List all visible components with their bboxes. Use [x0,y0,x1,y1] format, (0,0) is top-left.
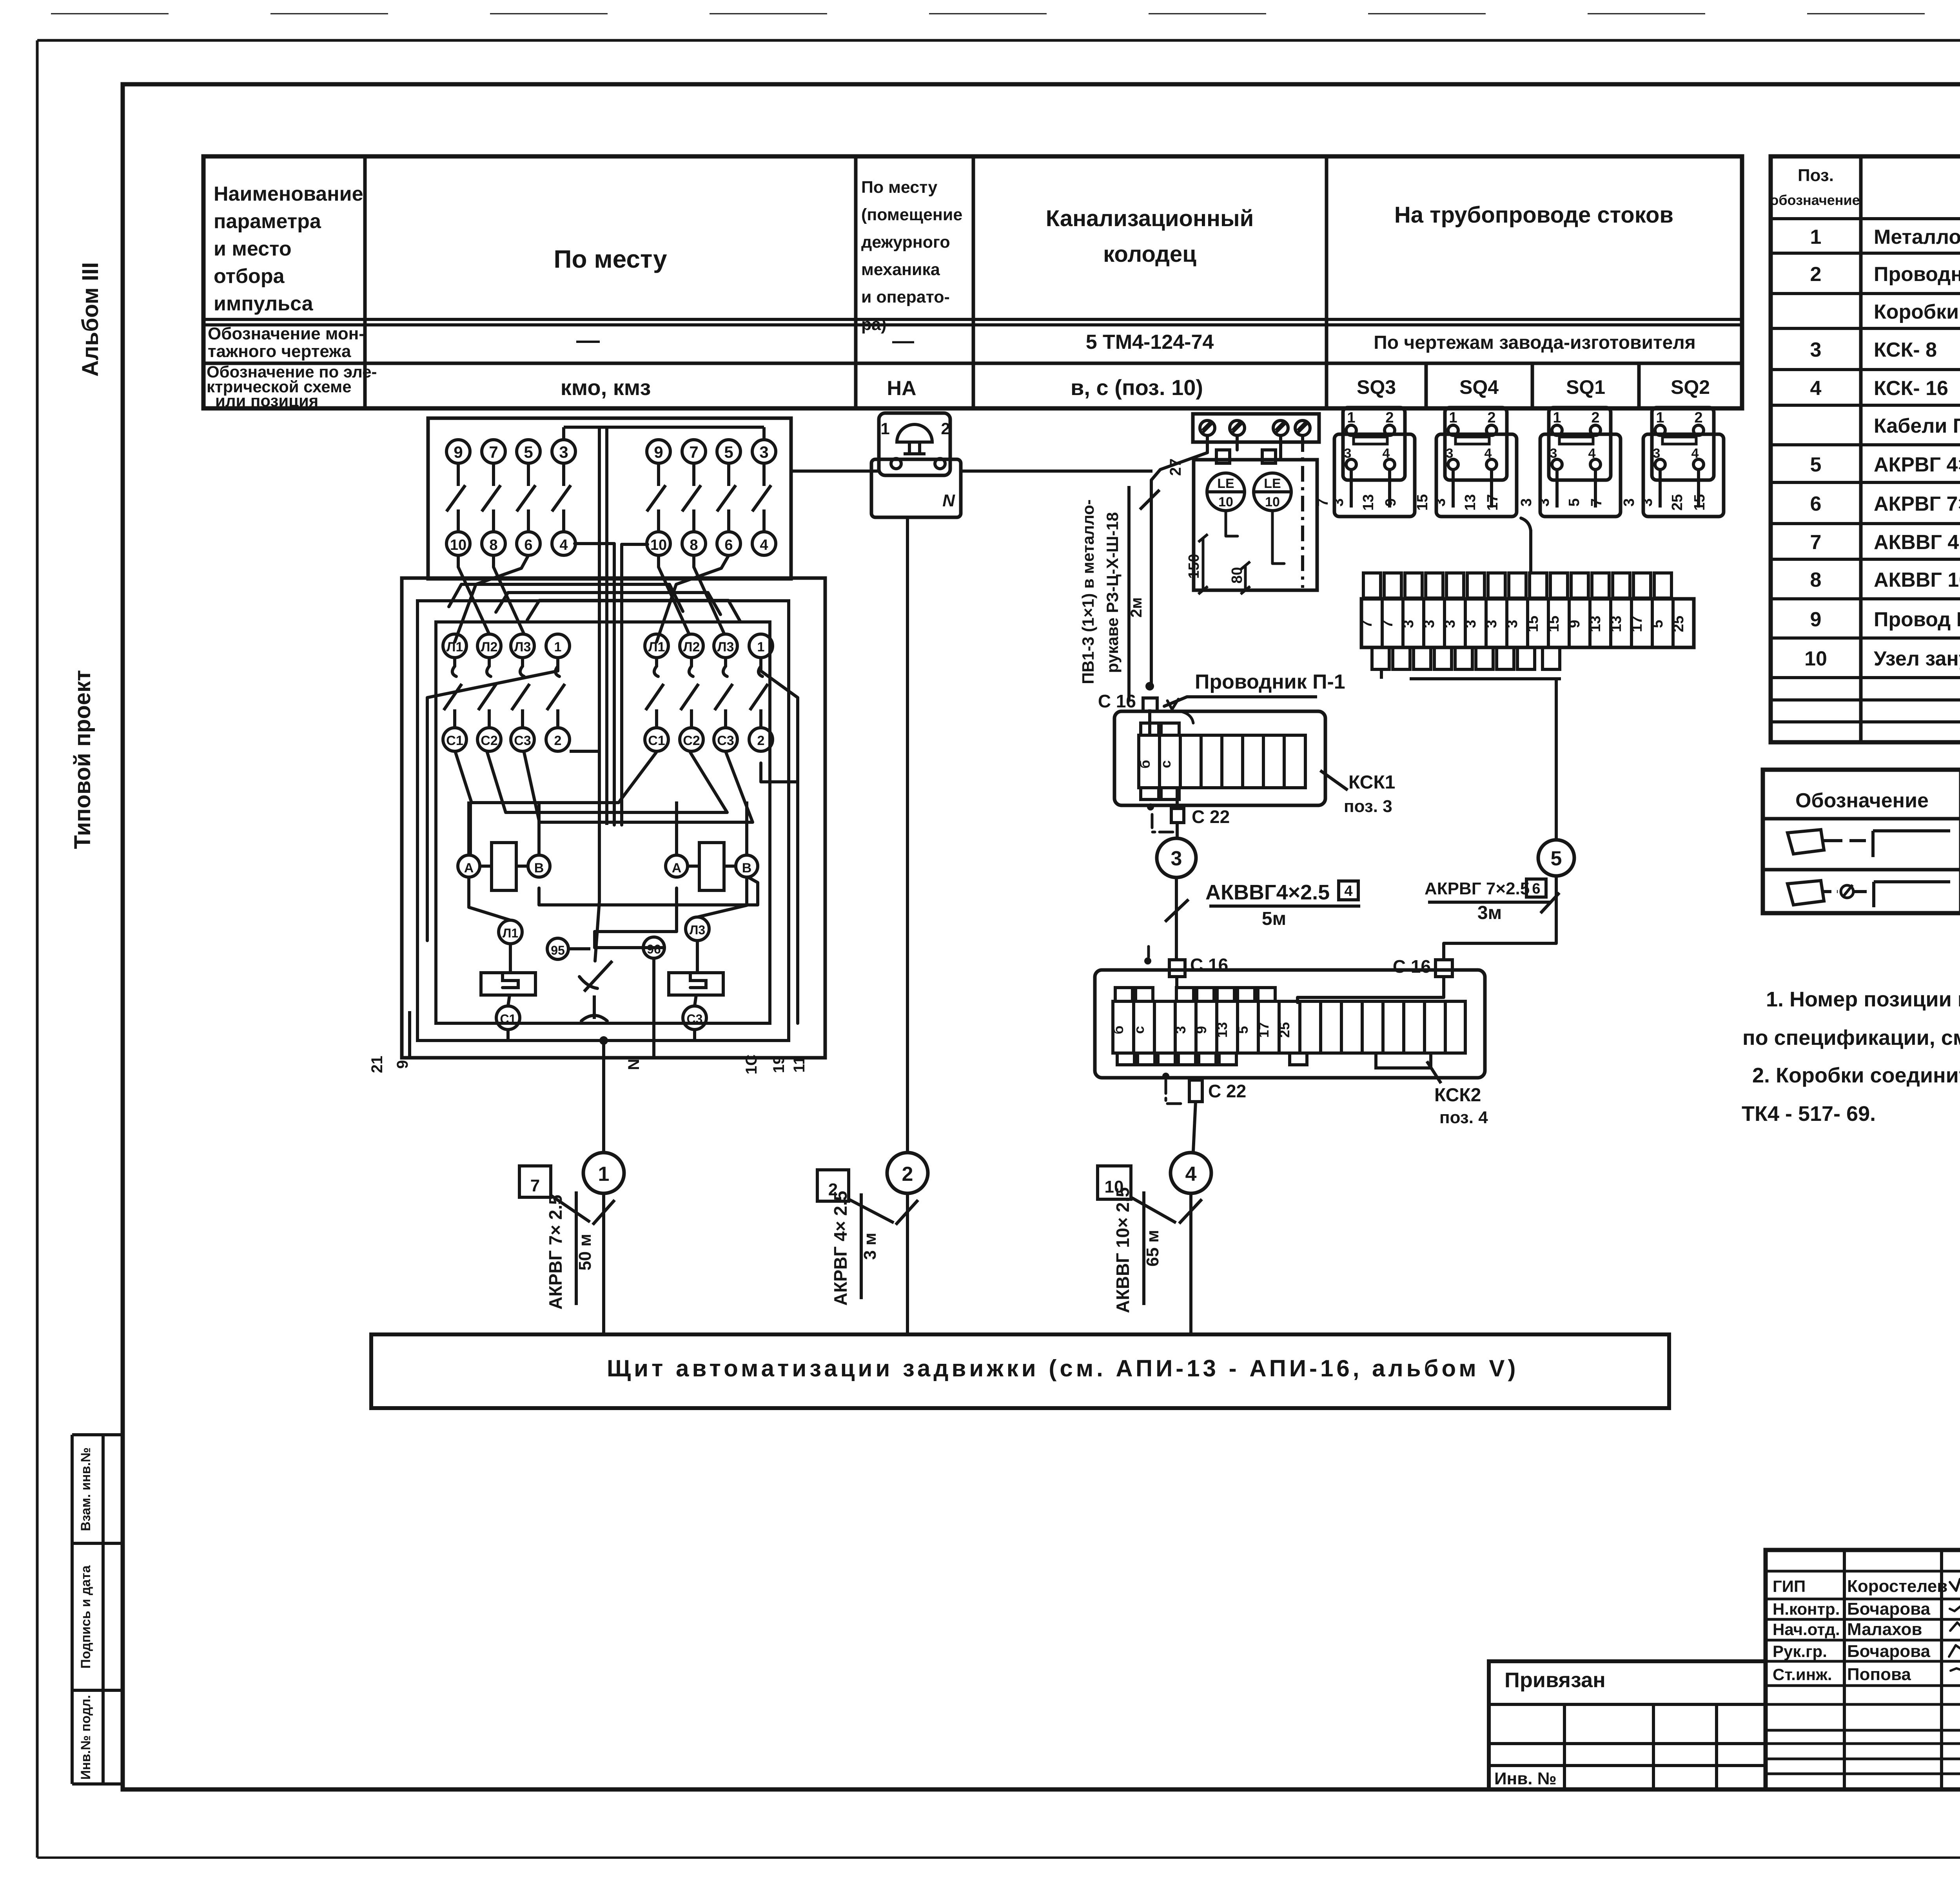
svg-text:Проводник П-1: Проводник П-1 [1195,671,1345,693]
svg-text:—: — [892,328,914,353]
svg-text:4: 4 [760,537,768,553]
svg-text:Привязан: Привязан [1504,1668,1606,1692]
svg-text:или позиция: или позиция [215,392,318,410]
svg-text:По чертежам завода-изготовител: По чертежам завода-изготовителя [1374,332,1696,353]
svg-text:15: 15 [1546,616,1562,632]
svg-text:19: 19 [770,1056,788,1073]
svg-text:механика: механика [861,260,940,279]
svg-text:Провод ПВ1-3 (1×1) ГОСТ 6323: Провод ПВ1-3 (1×1) ГОСТ 6323-79 [1874,608,1960,631]
svg-text:3: 3 [1550,446,1557,461]
svg-text:7: 7 [1810,531,1822,554]
svg-text:LE: LE [1264,476,1281,491]
svg-text:2: 2 [941,419,950,438]
svg-text:(помещение: (помещение [861,205,962,224]
svg-text:С3: С3 [514,733,531,748]
svg-text:импульса: импульса [214,292,314,315]
svg-text:1С: 1С [743,1054,760,1074]
svg-text:С3: С3 [687,1012,703,1026]
svg-text:параметра: параметра [214,210,321,233]
svg-text:3: 3 [1330,498,1347,506]
svg-text:С1: С1 [500,1012,516,1026]
svg-text:Бочарова: Бочарова [1847,1642,1931,1661]
svg-text:N: N [942,491,955,510]
svg-text:С2: С2 [683,733,700,748]
svg-text:—: — [576,327,600,353]
svg-text:LE: LE [1217,476,1234,491]
svg-text:Н.контр.: Н.контр. [1773,1600,1840,1618]
svg-text:3: 3 [1483,620,1500,628]
svg-text:АКВВГ4×2.5: АКВВГ4×2.5 [1205,881,1330,904]
svg-text:ПВ1-3 (1×1) в металло-: ПВ1-3 (1×1) в металло- [1079,499,1097,684]
svg-text:3: 3 [1653,446,1661,461]
svg-text:С3: С3 [717,733,734,748]
svg-text:Л1: Л1 [503,926,518,940]
svg-text:2: 2 [1385,410,1394,426]
svg-text:Подпись и дата: Подпись и дата [78,1565,93,1669]
svg-text:4: 4 [1691,446,1699,461]
svg-text:3: 3 [1172,1026,1189,1034]
svg-text:Попова: Попова [1847,1665,1911,1684]
svg-text:1: 1 [757,640,765,654]
svg-text:11: 11 [791,1056,808,1073]
svg-text:б: б [1110,1026,1126,1034]
svg-text:9: 9 [654,443,663,461]
svg-text:Типовой проект: Типовой проект [70,670,95,849]
svg-text:1: 1 [880,419,889,438]
svg-text:На трубопроводе стоков: На трубопроводе стоков [1394,202,1673,228]
svg-text:7: 7 [1379,620,1396,628]
svg-text:КСК- 8: КСК- 8 [1874,339,1937,361]
svg-text:С2: С2 [481,733,497,748]
svg-text:10: 10 [650,537,667,553]
svg-text:АКРВГ 7×2.5: АКРВГ 7×2.5 [1425,879,1530,898]
svg-text:6: 6 [524,537,532,553]
svg-text:и место: и место [214,237,292,260]
svg-text:КСК- 16: КСК- 16 [1874,377,1948,400]
svg-text:Обозначение: Обозначение [1795,789,1929,812]
svg-text:9: 9 [454,443,463,461]
svg-text:SQ4: SQ4 [1459,376,1499,398]
svg-text:Л3: Л3 [717,640,734,654]
svg-text:3м: 3м [1477,903,1502,923]
svg-text:По месту: По месту [861,178,937,197]
svg-text:13: 13 [1360,494,1377,511]
svg-text:10: 10 [1218,495,1233,509]
svg-text:КСК2: КСК2 [1434,1085,1481,1106]
svg-text:дежурного: дежурного [861,233,950,252]
svg-text:15: 15 [1414,494,1431,511]
svg-text:АКРВГ 4× 2.5: АКРВГ 4× 2.5 [830,1191,851,1305]
svg-text:Проводник П-1 ТУ 36.1276-76: Проводник П-1 ТУ 36.1276-76 [1874,263,1960,286]
svg-text:АКВВГ 4×2.5: АКВВГ 4×2.5 [1874,531,1960,554]
svg-text:2: 2 [828,1180,838,1199]
svg-text:Металлорукав РЗ-Ц-Х-Ш-18, ТУ 2: Металлорукав РЗ-Ц-Х-Ш-18, ТУ 22- 3988-77 [1874,226,1960,248]
svg-text:3: 3 [1639,498,1655,506]
svg-text:тажного чертежа: тажного чертежа [208,342,351,361]
svg-text:Инв.№ подл.: Инв.№ подл. [78,1695,93,1780]
svg-text:17: 17 [1485,494,1501,511]
svg-text:С 16: С 16 [1098,691,1136,711]
svg-text:С 16: С 16 [1393,956,1431,977]
svg-text:10: 10 [1804,647,1827,670]
svg-text:Л3: Л3 [514,640,531,654]
svg-text:3: 3 [1421,620,1437,628]
svg-text:1. Номер позиции прибора со: 1. Номер позиции прибора соответствует н… [1766,988,1960,1011]
svg-text:3: 3 [1171,847,1182,870]
svg-text:Щит автоматизации задвижки: Щит автоматизации задвижки (см. АПИ-13 -… [607,1355,1519,1381]
svg-text:ТК4 - 517- 69.: ТК4 - 517- 69. [1742,1102,1876,1126]
svg-text:кмо, кмз: кмо, кмз [561,375,651,400]
svg-text:8: 8 [690,537,698,553]
svg-text:Поз.: Поз. [1798,166,1834,185]
svg-text:3: 3 [1463,620,1479,628]
svg-text:С1: С1 [648,733,665,748]
svg-text:3: 3 [1446,446,1454,461]
svg-text:Нач.отд.: Нач.отд. [1773,1620,1840,1639]
svg-text:обозначение: обозначение [1770,192,1860,208]
svg-text:2м: 2м [1128,597,1145,618]
svg-text:Инв. №: Инв. № [1494,1769,1557,1788]
svg-text:9: 9 [1383,498,1399,506]
svg-text:25: 25 [1276,1022,1292,1038]
svg-text:1: 1 [598,1163,610,1186]
svg-text:3: 3 [1504,620,1521,628]
svg-text:С 22: С 22 [1208,1081,1246,1101]
svg-text:3: 3 [759,443,768,461]
svg-text:А: А [464,861,474,876]
svg-text:Бочарова: Бочарова [1847,1599,1931,1619]
svg-text:150: 150 [1186,554,1202,578]
svg-text:4: 4 [1810,377,1822,400]
svg-text:АКВВГ 10×2.5: АКВВГ 10×2.5 [1874,569,1960,591]
svg-text:1: 1 [1553,410,1561,426]
svg-text:3: 3 [1442,620,1458,628]
svg-text:9: 9 [1810,608,1822,631]
svg-text:НА: НА [887,377,916,400]
svg-text:С 22: С 22 [1192,807,1230,827]
svg-text:Малахов: Малахов [1847,1620,1922,1639]
svg-text:13: 13 [1462,494,1479,511]
svg-text:3: 3 [1621,498,1637,506]
svg-text:7: 7 [1588,498,1605,506]
svg-text:5 ТМ4-124-74: 5 ТМ4-124-74 [1086,331,1214,353]
svg-text:21: 21 [368,1056,386,1073]
svg-text:Коростелев: Коростелев [1847,1577,1947,1596]
svg-text:N: N [625,1059,642,1070]
svg-text:3: 3 [1344,446,1352,461]
svg-text:2: 2 [757,733,765,748]
svg-text:В: В [534,861,544,876]
svg-text:7: 7 [530,1176,540,1195]
svg-text:5: 5 [1650,620,1666,628]
svg-text:3: 3 [1810,339,1822,361]
svg-text:7: 7 [689,443,698,461]
svg-text:Узел зануления: Узел зануления [1874,647,1960,670]
svg-text:по спецификации, см. альбом: по спецификации, см. альбом VIII . [1742,1026,1960,1050]
svg-text:3: 3 [1432,498,1448,506]
svg-text:2: 2 [1810,263,1822,286]
svg-text:7: 7 [489,443,498,461]
svg-text:Л2: Л2 [683,640,700,654]
svg-text:4: 4 [1383,446,1390,461]
svg-text:Ст.инж.: Ст.инж. [1773,1665,1832,1684]
svg-text:2: 2 [902,1163,913,1186]
svg-text:отбора: отбора [214,265,285,288]
svg-text:3 м: 3 м [860,1233,880,1260]
svg-text:с: с [1158,760,1174,768]
svg-text:в, с (поз. 10): в, с (поз. 10) [1071,375,1203,400]
svg-text:25: 25 [1670,616,1687,632]
svg-text:5: 5 [524,443,533,461]
svg-text:10: 10 [1105,1177,1124,1196]
svg-text:С 16: С 16 [1190,955,1228,975]
svg-text:2: 2 [1694,410,1702,426]
svg-text:1: 1 [1449,410,1457,426]
svg-text:SQ1: SQ1 [1566,376,1605,398]
svg-text:6: 6 [724,537,733,553]
svg-text:Канализационный: Канализационный [1046,206,1254,231]
svg-text:6: 6 [1810,493,1822,515]
svg-text:13: 13 [1214,1022,1230,1038]
svg-text:SQ2: SQ2 [1671,376,1710,398]
svg-text:АКВВГ 10× 2.5: АКВВГ 10× 2.5 [1112,1187,1133,1313]
svg-text:7: 7 [1359,620,1375,628]
svg-text:Л3: Л3 [690,923,705,937]
svg-text:9: 9 [1193,1026,1209,1034]
svg-text:с: с [1131,1026,1147,1034]
svg-text:ра): ра) [861,315,887,334]
svg-text:рукаве РЗ-Ц-Х-Ш-18: рукаве РЗ-Ц-Х-Ш-18 [1103,512,1122,673]
svg-text:АКРВГ 4×2.5: АКРВГ 4×2.5 [1874,453,1960,476]
svg-text:По месту: По месту [554,245,667,273]
svg-text:5м: 5м [1262,908,1286,929]
svg-text:5: 5 [1566,498,1583,506]
svg-text:10: 10 [1265,495,1280,509]
svg-text:ГИП: ГИП [1773,1577,1806,1595]
svg-text:6: 6 [1532,881,1540,897]
svg-text:АКРВГ 7×2.5: АКРВГ 7×2.5 [1874,493,1960,515]
svg-text:Взам. инв.№: Взам. инв.№ [78,1447,93,1531]
svg-text:1: 1 [1810,226,1822,248]
svg-text:1: 1 [1656,410,1664,426]
svg-text:А: А [672,861,682,876]
svg-text:2. Коробки соединительные: 2. Коробки соединительные установить по … [1752,1064,1960,1087]
svg-text:4: 4 [1344,883,1352,899]
svg-text:Кабели ГОСТ 1508-78*Е: Кабели ГОСТ 1508-78*Е [1874,415,1960,437]
svg-text:3: 3 [559,443,568,461]
svg-text:и операто-: и операто- [861,288,950,306]
svg-text:SQ3: SQ3 [1357,376,1396,398]
svg-text:50 м: 50 м [575,1234,595,1271]
svg-text:4: 4 [1485,446,1492,461]
svg-text:В: В [742,861,752,876]
svg-text:15: 15 [1525,616,1541,632]
svg-text:колодец: колодец [1103,241,1196,267]
svg-text:80: 80 [1229,567,1245,584]
svg-text:3: 3 [1518,498,1535,506]
svg-text:поз. 4: поз. 4 [1439,1108,1488,1127]
svg-text:5: 5 [1810,453,1822,476]
svg-text:15: 15 [1691,494,1708,511]
svg-text:17: 17 [1256,1022,1272,1038]
svg-text:9: 9 [394,1060,411,1069]
svg-text:Коробки соединительные ТУ36-1: Коробки соединительные ТУ36-1753-75 [1874,301,1960,323]
svg-text:4: 4 [559,537,568,553]
svg-text:Рук.гр.: Рук.гр. [1773,1642,1827,1661]
svg-text:7: 7 [1315,498,1331,506]
svg-text:5: 5 [724,443,733,461]
svg-text:13: 13 [1608,616,1624,632]
svg-text:65 м: 65 м [1143,1230,1162,1267]
svg-text:Альбом III: Альбом III [78,262,103,377]
svg-text:17: 17 [1629,616,1645,632]
svg-text:25: 25 [1669,494,1686,511]
svg-text:4: 4 [1185,1163,1197,1186]
svg-text:КСК1: КСК1 [1348,772,1395,793]
svg-text:5: 5 [1235,1026,1251,1034]
svg-text:10: 10 [450,537,466,553]
svg-text:Наименование: Наименование [214,183,363,205]
svg-text:3: 3 [1536,498,1552,506]
svg-text:поз. 3: поз. 3 [1344,797,1392,816]
svg-text:С1: С1 [446,733,463,748]
svg-text:8: 8 [489,537,497,553]
svg-text:2: 2 [1591,410,1599,426]
svg-text:Л2: Л2 [481,640,498,654]
svg-text:б: б [1137,760,1153,769]
svg-text:1: 1 [554,640,562,654]
svg-text:95: 95 [551,943,565,957]
svg-text:АКРВГ 7× 2.5: АКРВГ 7× 2.5 [545,1195,566,1309]
svg-text:1: 1 [1347,410,1355,426]
svg-text:3: 3 [1400,620,1417,628]
svg-text:13: 13 [1587,616,1604,632]
svg-text:5: 5 [1551,847,1562,870]
svg-text:9: 9 [1566,620,1583,628]
svg-text:2: 2 [1487,410,1495,426]
svg-text:4: 4 [1588,446,1596,461]
svg-text:Обозначение мон-: Обозначение мон- [208,324,365,343]
svg-text:8: 8 [1810,569,1822,591]
svg-text:2: 2 [554,733,562,748]
